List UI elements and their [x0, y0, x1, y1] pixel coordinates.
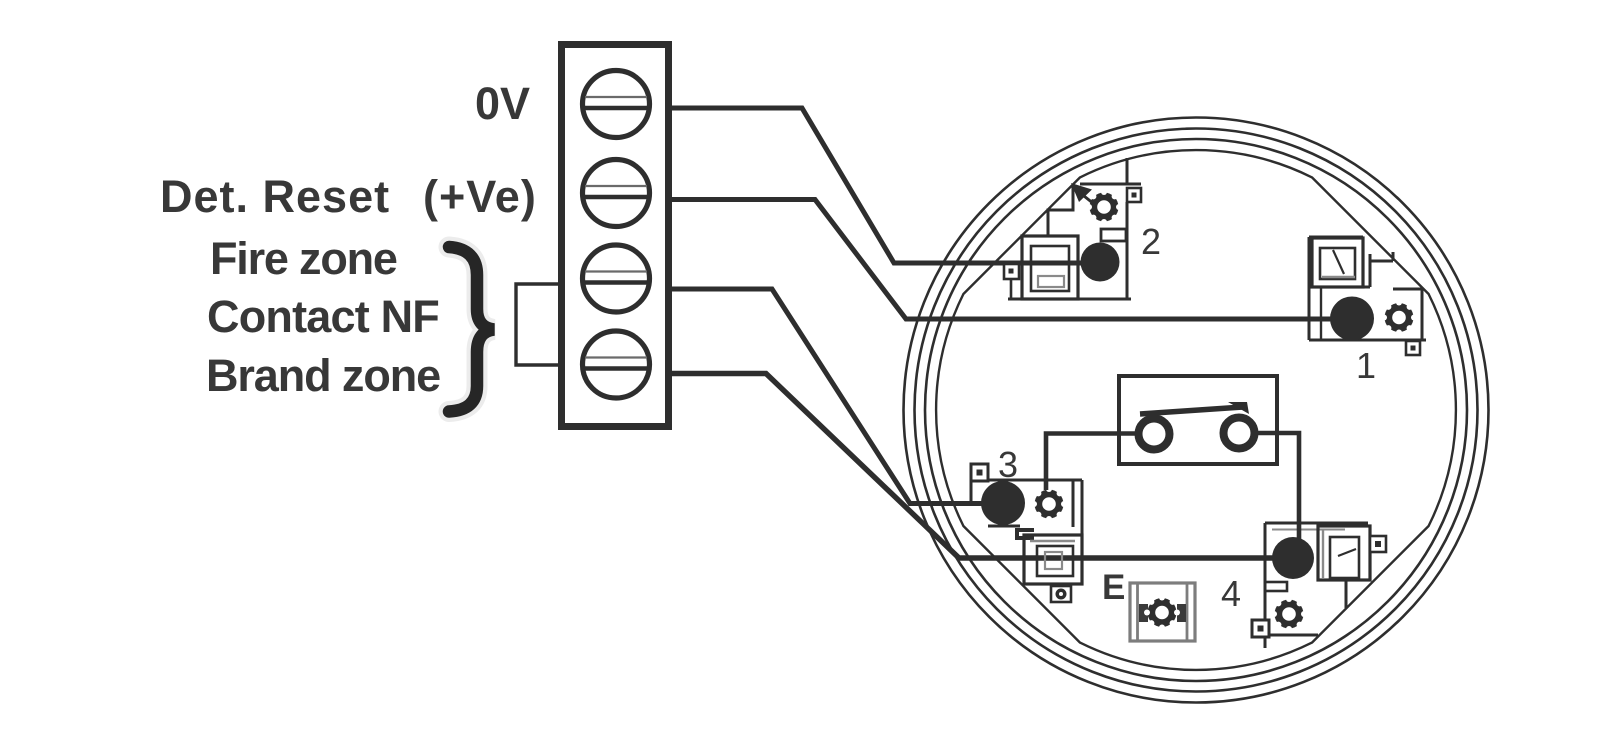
wire 0V to contact 2 [672, 108, 1092, 263]
detector base outer ring [904, 118, 1489, 703]
contact 2 wire dot [1081, 243, 1120, 282]
screw terminal fire zone a [583, 245, 650, 312]
svg-text:Det. Reset: Det. Reset [160, 171, 390, 222]
contact 2 screw gear [1086, 189, 1122, 225]
contact 3 wire dot [981, 481, 1025, 525]
LED E lamp [1139, 595, 1186, 631]
contact assembly 4 outline [1265, 523, 1368, 648]
detector base ring 2 [915, 129, 1478, 692]
svg-text:Brand zone: Brand zone [206, 350, 440, 401]
contact assembly 1 outline [1309, 237, 1426, 340]
terminal block body [562, 45, 669, 427]
svg-text:Fire zone: Fire zone [210, 233, 397, 284]
wire zone to contact 4 [672, 374, 1293, 559]
screw terminal fire zone b [583, 331, 650, 398]
screw terminal 0V [583, 71, 650, 138]
contact 4 bottom square [1252, 620, 1269, 637]
contact 2 side square [1004, 264, 1019, 279]
contact 3 clamp [1017, 530, 1082, 584]
switch wire to contact 4 [1256, 433, 1299, 552]
detector base ring 3 [925, 139, 1467, 681]
wire +Ve to contact 1 [672, 200, 1352, 320]
contact 4 screw gear [1271, 596, 1307, 632]
detector base inner chamfered ring [936, 150, 1456, 670]
contact 2 LED arrow [1071, 183, 1094, 204]
contact assembly 3 outline [971, 480, 1082, 584]
screw terminal Det.Reset [583, 160, 650, 227]
contact 1 screw gear [1381, 300, 1417, 336]
contact 1 connector square [1406, 341, 1420, 355]
switch box [1119, 376, 1277, 464]
contact 3 connector square [971, 464, 988, 481]
LED E box [1130, 583, 1195, 641]
grouping brace [449, 247, 494, 412]
contact 1 wire dot [1330, 297, 1374, 341]
svg-text:Contact NF: Contact NF [207, 291, 439, 342]
contact 1 clamp [1312, 238, 1363, 287]
contact assembly 2 outline [1008, 158, 1141, 299]
switch contact right [1224, 418, 1255, 449]
svg-text:3: 3 [998, 444, 1018, 485]
contact 2 clamp [1022, 236, 1078, 299]
svg-text:0V: 0V [475, 78, 530, 129]
wire zone to contact 3 [672, 289, 1002, 504]
switch wire to contact 3 [1046, 434, 1137, 491]
svg-text:E: E [1102, 568, 1125, 607]
contact 4 clamp [1272, 526, 1370, 580]
svg-text:4: 4 [1221, 573, 1241, 614]
contact 4 connector square [1370, 536, 1386, 552]
switch contact left [1139, 419, 1170, 450]
svg-text:(+Ve): (+Ve) [423, 171, 537, 222]
svg-text:1: 1 [1356, 345, 1376, 386]
bracket joining fire-zone terminals [516, 284, 558, 365]
contact 2 gate [1101, 229, 1126, 241]
contact 3 screw gear [1031, 486, 1067, 522]
contact 3 bottom square [1051, 586, 1071, 602]
contact 2 connector square [1127, 188, 1141, 202]
svg-text:2: 2 [1141, 221, 1161, 262]
contact 4 wire dot [1272, 537, 1314, 579]
switch lever [1140, 402, 1249, 414]
